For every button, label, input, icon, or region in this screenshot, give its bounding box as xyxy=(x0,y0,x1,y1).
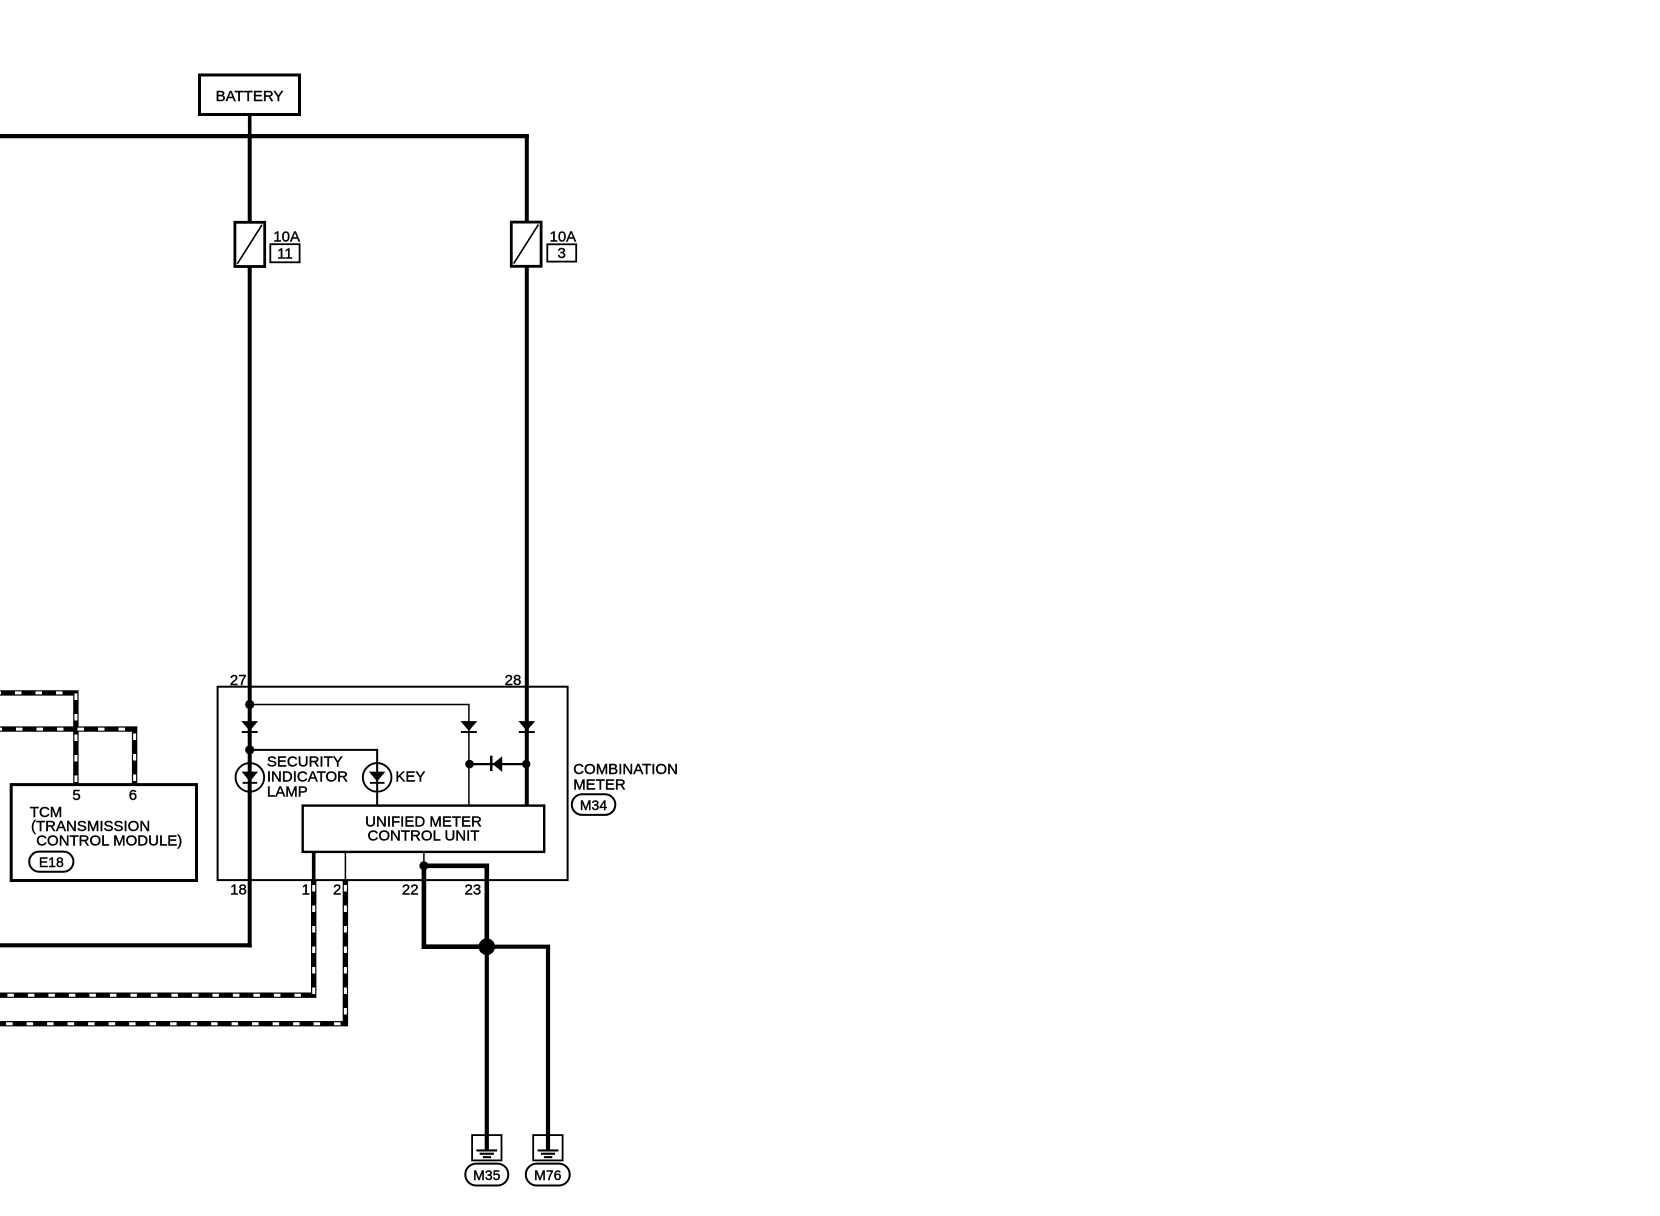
node junction dot on pin 27 branch xyxy=(245,700,254,709)
svg-text:27: 27 xyxy=(230,672,247,689)
striped wire to TCM pin 6 xyxy=(0,729,135,785)
TCM label xyxy=(30,804,183,850)
battery box xyxy=(200,75,300,115)
connector M34 oval xyxy=(572,794,616,815)
diode D1 pin 27 branch xyxy=(241,721,258,733)
svg-text:18: 18 xyxy=(230,881,247,898)
svg-text:M34: M34 xyxy=(580,797,607,813)
svg-text:5: 5 xyxy=(72,787,80,804)
svg-text:23: 23 xyxy=(465,881,482,898)
diode D2 middle branch xyxy=(461,721,478,733)
security indicator lamp label xyxy=(267,754,348,801)
svg-text:BATTERY: BATTERY xyxy=(216,88,284,105)
ground junction node xyxy=(479,938,496,955)
wire node 2 to key LED xyxy=(250,750,377,806)
node junction dot 2 on pin 27 branch xyxy=(245,745,254,754)
svg-text:M76: M76 xyxy=(534,1167,561,1183)
wire horizontal diode row xyxy=(469,763,527,765)
svg-text:1: 1 xyxy=(302,881,310,898)
combination meter box xyxy=(218,687,568,880)
fuse number box 3 xyxy=(547,244,576,262)
wire junction to ground M76 xyxy=(487,947,548,1150)
svg-text:22: 22 xyxy=(402,881,419,898)
node dot right of horizontal diode xyxy=(522,760,530,768)
wire pin 2 solid segment xyxy=(344,852,346,880)
connector M76 oval xyxy=(526,1164,570,1186)
wire pin 22 xyxy=(424,866,487,947)
striped wire pin 1 xyxy=(0,880,314,995)
svg-text:6: 6 xyxy=(129,787,137,804)
diode D4 horizontal xyxy=(490,756,502,772)
fuse number box 11 xyxy=(270,244,299,263)
striped wire pin 2 xyxy=(0,880,345,1024)
wire power bus xyxy=(0,134,529,138)
svg-text:M35: M35 xyxy=(473,1167,500,1183)
wire pin 23 xyxy=(424,866,487,947)
wire pin 18 horizontal xyxy=(0,943,252,947)
wire control unit to node 22 xyxy=(423,852,425,866)
wire pin 1 solid segment xyxy=(312,852,316,880)
svg-text:METER: METER xyxy=(573,777,626,794)
svg-text:10A: 10A xyxy=(550,229,577,246)
svg-text:3: 3 xyxy=(558,245,566,262)
svg-text:LAMP: LAMP xyxy=(267,783,308,800)
fuse 10A (11) xyxy=(235,222,265,266)
unified meter control unit box xyxy=(303,806,545,852)
connector E18 oval xyxy=(29,852,73,872)
diode D3 pin 28 branch xyxy=(518,721,535,733)
wire bus to fuse 11 xyxy=(248,134,252,224)
wire fuse 3 to pin 28 xyxy=(525,266,529,807)
svg-text:11: 11 xyxy=(277,246,293,263)
combination meter label xyxy=(573,761,678,793)
wire fuse 11 to pin 27 xyxy=(248,266,252,687)
svg-text:E18: E18 xyxy=(39,854,64,870)
wire node to diode D2 branch xyxy=(250,705,469,807)
svg-text:CONTROL UNIT: CONTROL UNIT xyxy=(368,827,480,844)
connector M35 oval xyxy=(465,1164,508,1186)
ground symbol M35 xyxy=(472,1135,501,1160)
LED security indicator lamp xyxy=(236,763,265,792)
svg-text:CONTROL MODULE): CONTROL MODULE) xyxy=(36,833,182,850)
node dot left of horizontal diode xyxy=(465,760,474,769)
wire bus to fuse 3 xyxy=(525,134,529,224)
fuse 10A (3) xyxy=(511,222,541,266)
ground symbol M76 xyxy=(533,1135,562,1160)
svg-text:KEY: KEY xyxy=(395,769,425,786)
TCM box xyxy=(11,785,196,881)
svg-text:28: 28 xyxy=(505,672,522,689)
svg-text:10A: 10A xyxy=(273,228,300,245)
node dot pin 22 xyxy=(419,861,428,870)
wire battery stem xyxy=(248,113,252,138)
wire junction to ground M35 xyxy=(485,947,489,1150)
wire pin 27 down through LED to pin 18 exit xyxy=(248,687,252,948)
LED key xyxy=(363,763,392,792)
striped wire to TCM pin 5 xyxy=(0,693,76,785)
svg-text:2: 2 xyxy=(333,881,341,898)
